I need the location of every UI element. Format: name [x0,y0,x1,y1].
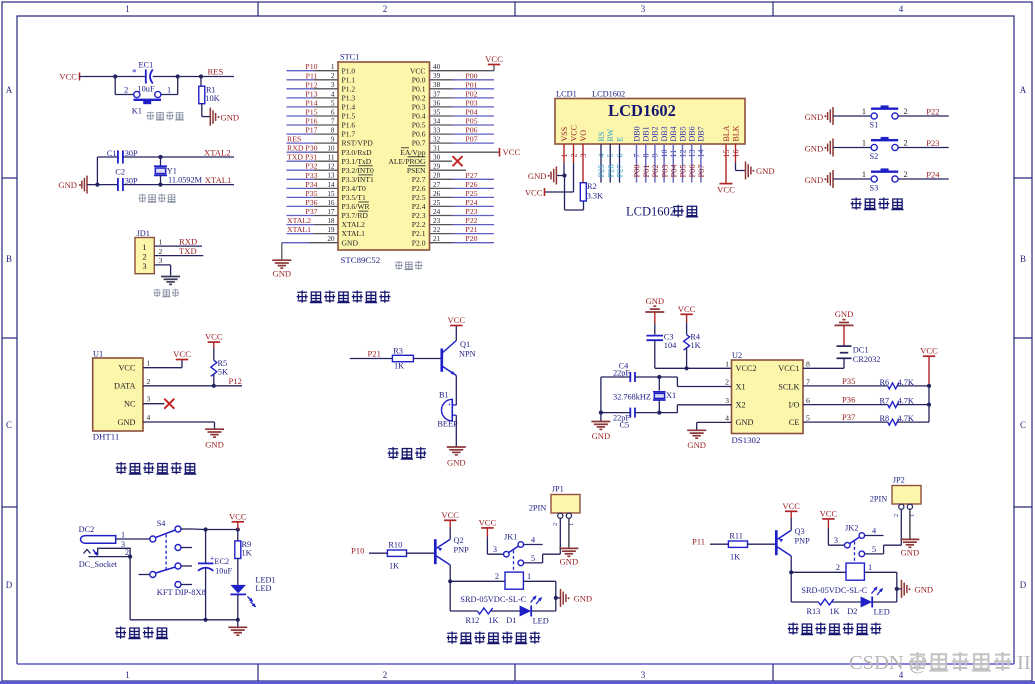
push button S3 [862,168,908,192]
node junction [204,527,208,531]
pin name P3.0/RxD [342,148,373,157]
svg-text:P24: P24 [465,198,477,207]
wire [543,518,561,563]
svg-text:P21: P21 [465,225,477,234]
chip value DHT11 [93,432,120,442]
resistor R5 5K [211,359,228,377]
pin number 7 (rotated) [632,154,641,158]
power port GND (JK1) [556,589,592,607]
pin name VCC [118,364,136,373]
wire pin14 [700,144,702,183]
svg-text:32.768kHZ: 32.768kHZ [613,393,651,402]
svg-text:JK2: JK2 [845,524,858,533]
svg-text:7: 7 [806,378,810,387]
pin number 24 [433,208,441,216]
svg-text:B: B [6,254,12,264]
power port VCC (pin31) [500,147,521,157]
net label P27 (rotated) [616,164,625,177]
node junction [158,183,162,187]
resistor R8 4.7K [880,414,914,425]
pin name P0.1 [412,84,426,93]
svg-text:RW: RW [606,129,615,142]
wire pin34 [430,124,495,126]
pin name X2 [736,401,746,410]
subtitle anjian fuwei [146,112,183,121]
node junction [236,527,240,531]
power VCC (JK1) [479,517,497,536]
pin name GND [342,238,359,247]
pin name P1.2 [342,84,356,93]
title jidianqi kongzhi shuchu [788,623,882,635]
svg-text:2: 2 [836,563,840,572]
pin name P0.5 [412,121,426,130]
svg-text:GND: GND [205,440,224,450]
svg-text:LED: LED [255,584,271,593]
pin number 20 [327,235,335,243]
pin label DB5 (rotated) [678,126,687,141]
wire pin4 [600,144,602,183]
ground GND (C3) [645,296,664,312]
wire pin10 [287,151,339,153]
svg-text:7: 7 [331,117,335,125]
svg-text:1: 1 [527,572,531,581]
resistor R7 4.7K [880,397,914,408]
wire [369,552,387,554]
svg-text:BEEP: BEEP [437,420,458,429]
wire [201,77,210,117]
net label P04 [465,108,477,117]
svg-text:P22: P22 [465,216,477,225]
wire pin17 [287,215,339,217]
net label XTAL1 [205,175,232,185]
svg-text:P22: P22 [926,107,939,117]
wire [803,358,844,368]
net label P16 [305,117,317,126]
net label P02 [465,89,477,98]
wire emitter to VCC [449,520,451,539]
pin number 19 [327,226,335,234]
svg-text:5: 5 [806,413,810,422]
svg-text:C: C [1020,420,1026,430]
relay JK1 coil [505,572,523,589]
pin number 5 (rotated) [606,154,615,158]
svg-text:VCC: VCC [59,72,77,82]
net label P13 [305,89,317,98]
capacitor EC2 10uF [198,530,233,620]
svg-text:35: 35 [433,108,441,116]
wire [80,76,146,78]
node junction [657,375,661,379]
svg-text:P11: P11 [692,537,705,547]
pin number 11 [328,154,335,162]
net label P37 [305,207,317,216]
pin number 1 [331,63,335,71]
wire [710,543,728,545]
svg-text:VCC: VCC [485,54,503,64]
svg-text:P35: P35 [842,376,855,386]
net label P24 [465,198,477,207]
node junction [789,570,793,574]
svg-text:4: 4 [331,90,335,98]
svg-text:B1: B1 [439,391,449,400]
pin number 7 [331,117,335,125]
svg-text:P02: P02 [651,164,660,177]
wire [600,377,602,421]
wire pin22 [430,233,495,235]
wire [655,340,732,368]
svg-text:3: 3 [834,536,838,545]
svg-text:P2.5: P2.5 [412,193,426,202]
svg-text:P24: P24 [926,170,940,180]
wire [601,377,732,387]
svg-text:2: 2 [124,85,128,94]
svg-text:P2.7: P2.7 [412,175,426,184]
wire bottom rail [791,572,897,602]
diode D2 LED [861,597,873,608]
relay JK2 coil [846,563,864,580]
svg-text:1K: 1K [394,362,404,371]
chip U STC1 label [340,53,359,62]
wire BLK pin16 [736,144,746,171]
svg-text:GND: GND [221,112,240,122]
buzzer B1 BEEP [437,391,458,429]
svg-text:D1: D1 [506,616,516,625]
wire pin6 [619,144,621,183]
chip U1 label [93,350,103,359]
net label P35 [305,189,317,198]
wire [97,157,117,185]
wire pin16 [287,205,339,207]
svg-text:GND: GND [560,557,579,567]
pin name P1.0 [342,66,356,75]
pin number 3 [493,545,497,554]
svg-text:P20: P20 [465,234,477,243]
svg-text:JP2: JP2 [893,476,905,485]
node junction [562,173,566,177]
wire pin8 [645,144,647,183]
svg-text:P37: P37 [305,207,317,216]
power port GND (backlight) [746,162,775,180]
net label P00 (rotated) [633,164,642,177]
svg-text:A: A [1020,85,1027,95]
svg-text:EA/Vpp: EA/Vpp [400,148,426,157]
pin number 13 (rotated) [688,150,697,158]
pin number 3 (rotated) [579,154,588,158]
net label P24 [926,170,940,180]
wire pin9 [654,144,656,183]
svg-text:DS1302: DS1302 [732,435,761,445]
node junction [927,403,931,407]
pin label BLK (rotated) [731,125,740,141]
svg-text:P06: P06 [465,126,477,135]
net label P23 [926,138,939,148]
svg-text:38: 38 [433,81,441,89]
pin name P2.7 [412,175,426,184]
svg-text:4: 4 [899,4,904,14]
svg-text:PNP: PNP [795,537,811,546]
svg-text:31: 31 [433,145,441,153]
svg-text:S2: S2 [870,152,879,161]
wire VO pin3 [582,144,584,183]
net label P02 (rotated) [651,164,660,177]
svg-text:VCC: VCC [569,125,578,141]
svg-text:P1.1: P1.1 [342,75,356,84]
power VCC (DHT11) [173,349,191,360]
svg-text:P17: P17 [305,126,317,135]
svg-text:BLA: BLA [722,125,731,141]
wire [898,115,949,117]
net label P25 [465,189,477,198]
wire [213,374,215,386]
pin number 29 [433,163,441,171]
pin number 6 [331,108,335,116]
wire pin13 [691,144,693,183]
svg-text:S1: S1 [870,121,879,130]
ground GND (JP2) [900,539,919,557]
power port GND (S1) [805,107,833,125]
pin name VCC1 [778,364,799,373]
power VCC (JK2) [820,508,838,527]
capacitor C2 30P [115,167,138,191]
net label TXD P31 [287,153,317,162]
pin label VO (rotated) [579,130,588,142]
wire [654,312,656,335]
svg-text:PNP: PNP [454,546,470,555]
svg-text:P1.4: P1.4 [342,103,356,112]
svg-text:VCC: VCC [479,517,497,527]
node junction [113,74,117,78]
pin label DB7 (rotated) [697,126,706,141]
svg-text:R11: R11 [729,531,743,540]
pin name P1.4 [342,103,356,112]
pin name P1.6 [342,121,356,130]
pin number 38 [433,81,441,89]
svg-text:P1.2: P1.2 [342,84,356,93]
svg-text:VCC: VCC [782,501,800,511]
pin number 30 [433,154,441,162]
svg-text:3: 3 [641,670,646,680]
node junction [158,155,162,159]
power port GND (LCD) [528,167,557,185]
capacitor EC1 10uF [132,61,155,94]
svg-text:P1.6: P1.6 [342,121,356,130]
label R12 [466,616,480,625]
pin number 3 [121,540,125,549]
svg-text:3: 3 [147,395,151,404]
title jidianqi kongzhi shuchu [447,632,541,644]
wire [601,405,732,413]
svg-text:GND: GND [835,309,854,319]
pin number 4 (rotated) [597,154,606,158]
pin name P1.5 [342,112,356,121]
switch S4 throw1 [175,526,192,532]
switch S4 throw3 [175,563,192,569]
wire pin15 [287,196,339,198]
svg-text:C5: C5 [620,420,630,429]
wire pin28 [430,178,495,180]
net label P22 [465,216,477,225]
svg-text:DB0: DB0 [632,126,641,141]
pin number 3 [147,395,151,404]
pin label DB3 (rotated) [660,126,669,141]
net label P26 [465,180,477,189]
wire pin2 DATA [143,385,242,387]
wire pin1 [116,538,150,540]
ground GND (R1) [210,108,239,126]
svg-text:4: 4 [725,413,729,422]
watermark CSDN [849,652,1031,674]
title danpianji zuixiao xitong [297,291,391,303]
svg-text:P1.5: P1.5 [342,112,356,121]
svg-text:E: E [615,137,624,142]
svg-text:22: 22 [433,226,441,234]
subtitle jingzhen dianlu [138,194,175,203]
pin number 26 [433,190,441,198]
label R13 [807,607,821,616]
net label P05 (rotated) [679,164,688,177]
svg-text:DB6: DB6 [688,126,697,141]
svg-text:A: A [6,85,13,95]
wire [686,348,688,368]
wire [833,115,871,117]
svg-text:P1.0: P1.0 [342,66,356,75]
pin number 3 [159,256,163,265]
pin name P3.6/WR [342,202,371,211]
pin number 28 [433,172,441,180]
net label TXD [179,246,197,256]
pin name ALE/PROG [388,157,426,166]
wire emitter down [455,376,457,406]
net label P11 [692,537,705,547]
wire [413,358,440,360]
svg-text:DHT11: DHT11 [93,432,120,442]
svg-text:VCC: VCC [820,508,838,518]
transistor Q2 PNP [435,536,469,565]
pin name P3.7/RD [342,211,369,220]
svg-text:P04: P04 [465,108,477,117]
svg-text:2PIN: 2PIN [529,504,547,513]
wire pin12 [287,169,339,171]
svg-text:P0.1: P0.1 [412,84,426,93]
pin name P0.7 [412,139,426,148]
net label RXD [179,237,197,247]
svg-text:GND: GND [756,166,775,176]
pin number 1 [725,359,729,368]
pin number 5 [331,99,335,107]
wire [568,518,570,548]
pin name XTAL1 [342,229,366,238]
svg-text:RES: RES [287,135,301,144]
svg-text:P14: P14 [305,98,317,107]
svg-text:1: 1 [868,563,872,572]
wire [898,178,949,180]
wire pin3 [287,88,339,90]
pin number 12 (rotated) [678,150,687,158]
pin number 4 [147,413,151,422]
power VCC (backlight) [717,184,735,195]
pin number 32 [433,136,441,144]
net label P37 [842,412,856,422]
relay dashed link [854,542,856,563]
net label P14 [305,98,317,107]
svg-text:S3: S3 [870,184,879,193]
chip DHT11 body [93,358,143,431]
pin number 2 (rotated) [893,514,900,517]
ground GND (DHT11) [205,429,224,449]
relay throw 4 [518,536,543,548]
wire pin40 to VCC [430,65,495,71]
svg-text:D: D [1020,580,1027,590]
svg-text:X2: X2 [736,401,746,410]
svg-text:8: 8 [806,359,810,368]
node junction [927,384,931,388]
wire [350,358,393,360]
svg-text:2: 2 [331,72,335,80]
svg-text:R13: R13 [807,607,821,616]
wire pin11 [287,160,339,162]
svg-text:GND: GND [687,440,706,450]
wire [828,528,844,546]
svg-text:P27: P27 [616,164,625,177]
wire pin24 [430,215,495,217]
crystal Y1 11.0592M [154,157,203,185]
svg-text:P3.4/T0: P3.4/T0 [342,184,366,193]
pin name XTAL2 [342,220,366,229]
indicator arrows [531,596,543,605]
svg-text:D2: D2 [847,607,857,616]
resistor R11 1K [728,531,747,561]
pin number 9 [331,136,335,144]
dc socket DC2 barrel [81,536,116,544]
svg-text:6: 6 [806,396,810,405]
pin number 8 [331,127,335,135]
pin number 23 [433,217,441,225]
net label P04 (rotated) [670,164,679,178]
svg-text:P3.5/T1: P3.5/T1 [342,193,366,202]
wire pin35 [430,115,495,117]
node junction [895,587,899,591]
svg-text:P33: P33 [305,171,317,180]
pin number 22 [433,226,441,234]
pin number 7 [806,378,810,387]
wire pin23 [430,224,495,226]
power port GND (S3) [805,170,833,188]
pin label BLA (rotated) [722,125,731,141]
svg-text:P05: P05 [465,117,477,126]
no-connect X (DHT11) [164,399,174,409]
wire [237,620,239,627]
wire [843,325,845,346]
net label P10 [305,62,317,71]
svg-text:1K: 1K [488,616,498,625]
svg-text:STC1: STC1 [340,53,359,62]
net label RES [287,135,301,144]
connector DC2 label [79,525,95,534]
pin number 5 [806,413,810,422]
pin number 4 [725,413,729,422]
pin name P0.3 [412,103,426,112]
pin label DB2 (rotated) [651,126,660,141]
net label P33 [305,171,317,180]
svg-text:CR2032: CR2032 [853,355,881,364]
pin label DB4 (rotated) [669,126,678,141]
relay value SRD-05VDC-SL-C [460,595,526,604]
net label P07 (rotated) [697,164,706,177]
push button K1 [124,85,171,115]
pin name P3.2/INT0 [342,166,374,175]
node junction [95,183,99,187]
svg-text:GND: GND [118,418,136,427]
